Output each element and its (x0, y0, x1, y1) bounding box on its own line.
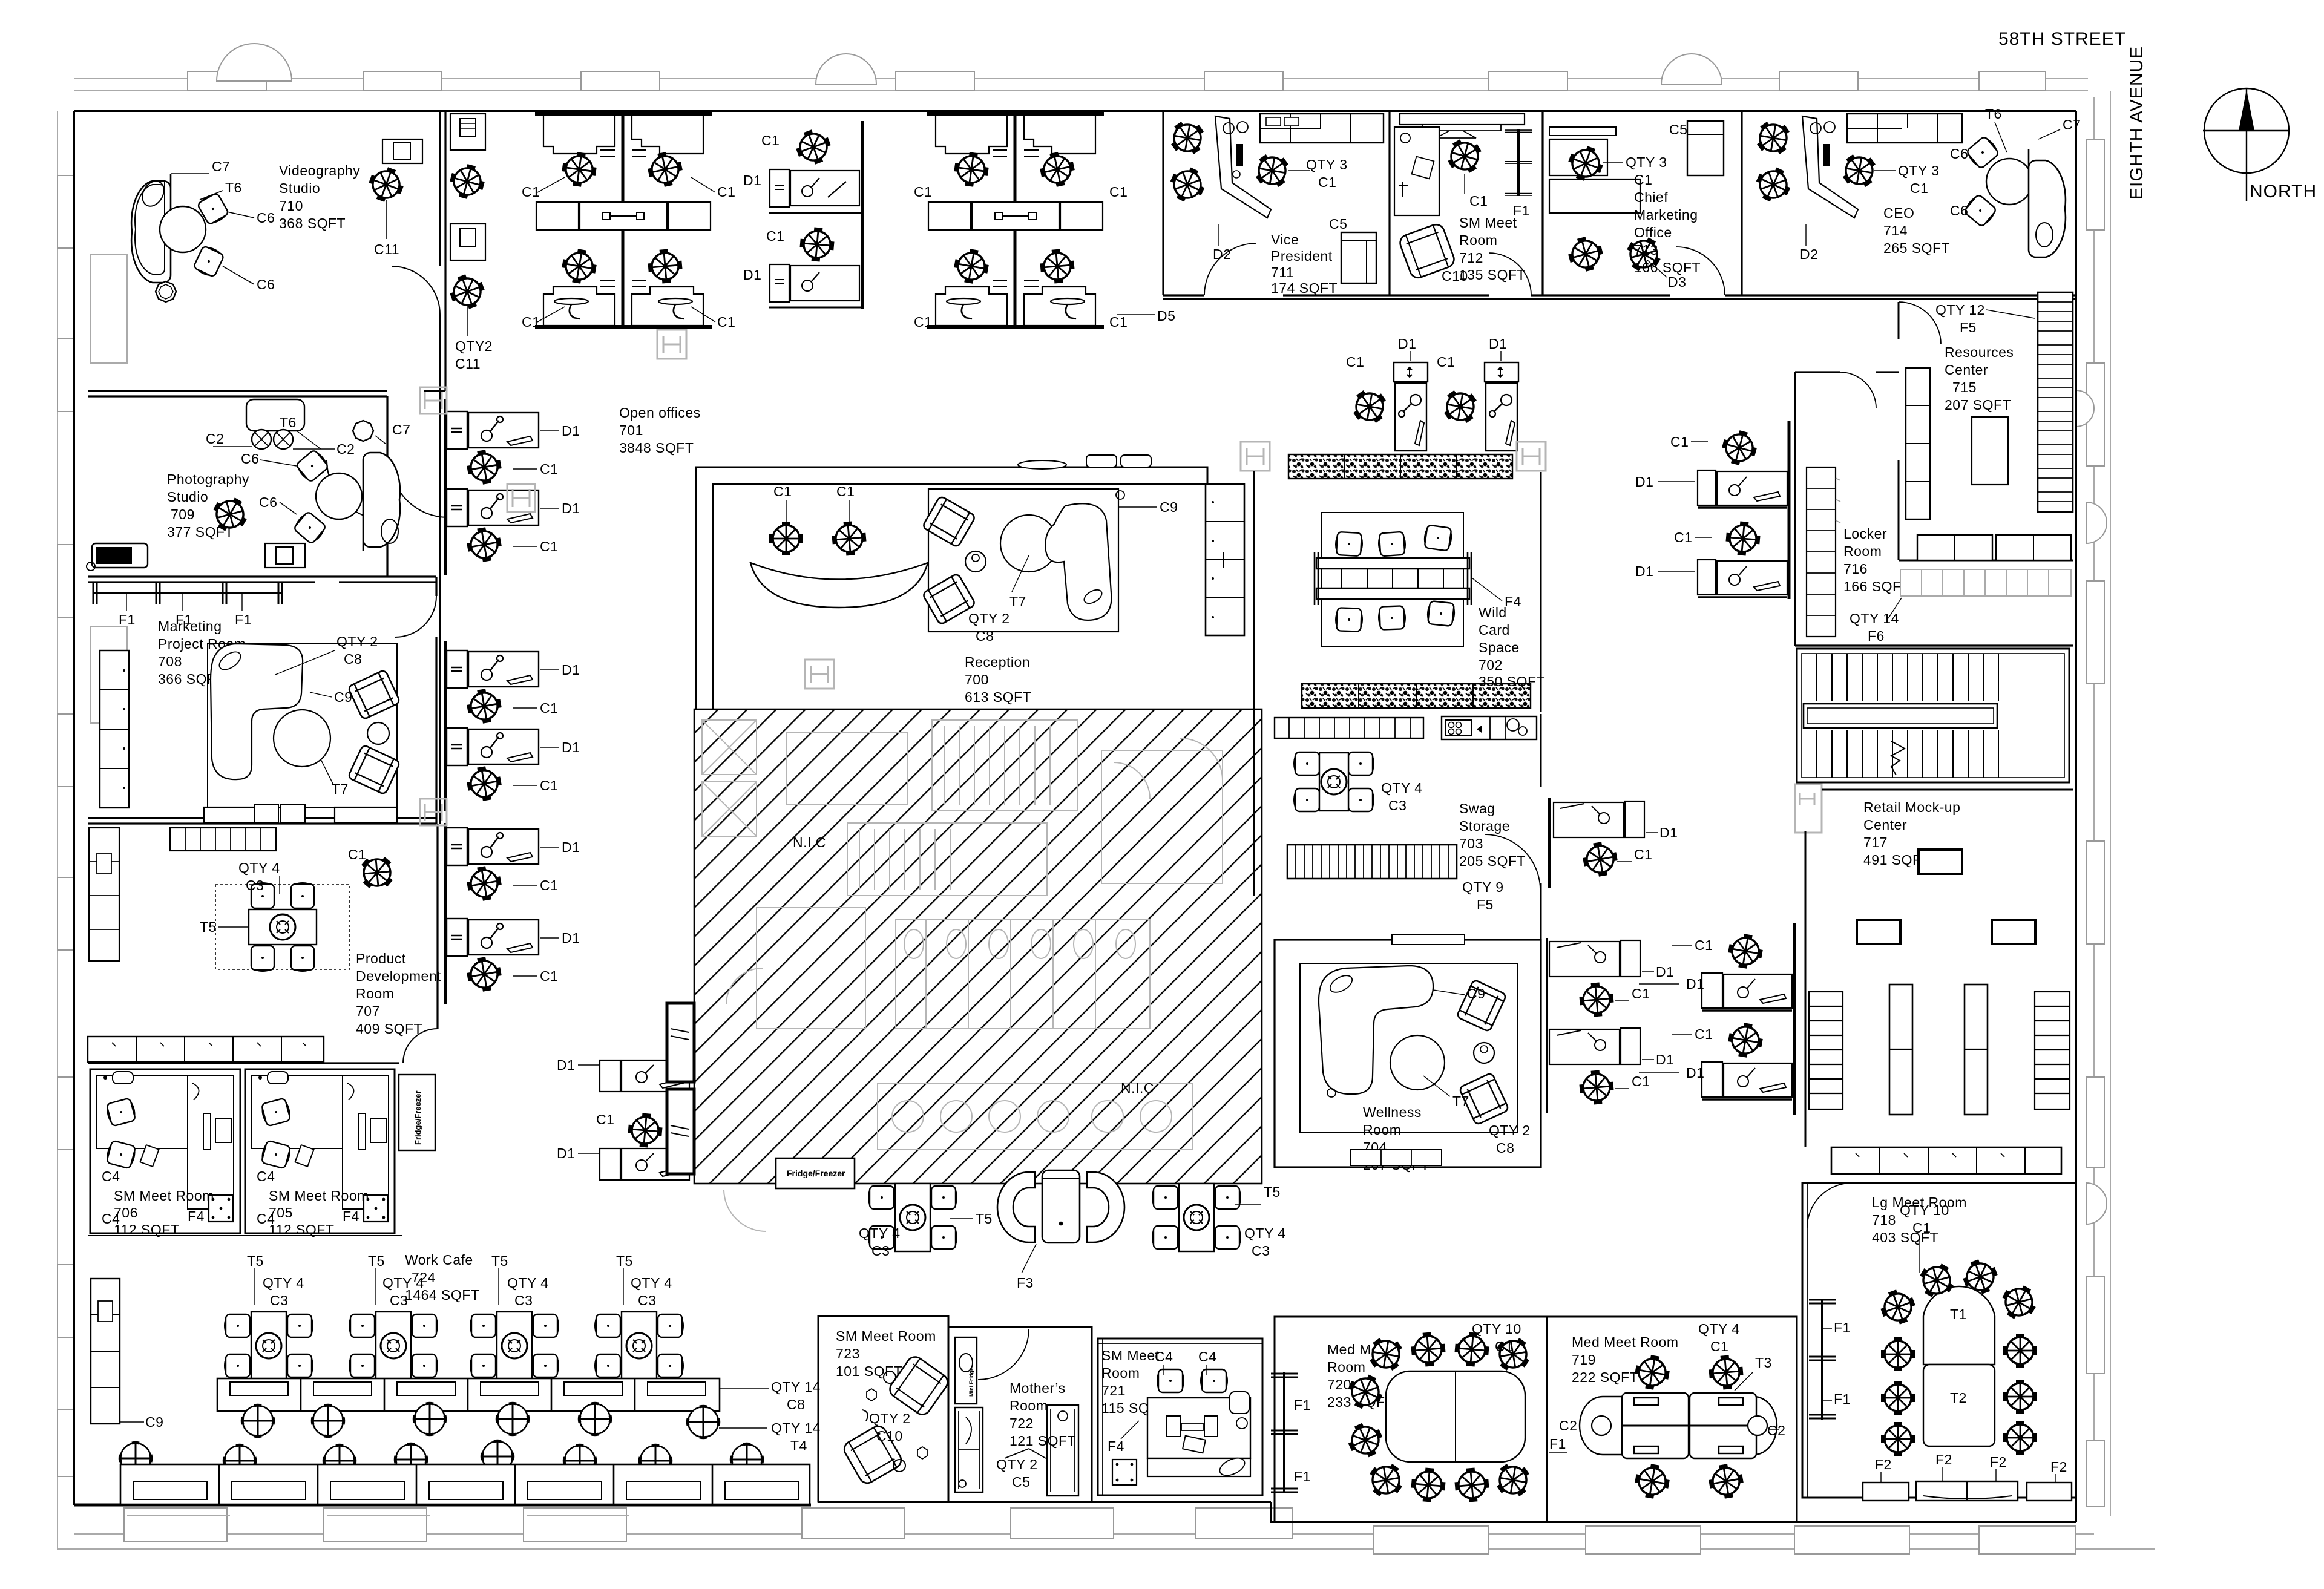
svg-text:706: 706 (114, 1205, 138, 1220)
sofa C7 mirrored + table T6 (363, 453, 400, 551)
middle pair of hoteling desks between clusters (743, 121, 864, 309)
svg-text:135 SQFT: 135 SQFT (1459, 267, 1526, 283)
svg-text:Resources: Resources (1945, 344, 2014, 360)
svg-text:Center: Center (1863, 817, 1907, 833)
svg-text:F2: F2 (1990, 1454, 2007, 1470)
svg-text:Room: Room (1459, 232, 1497, 248)
display fixtures (1919, 850, 1962, 874)
F2 benches bottom (1863, 1483, 1909, 1501)
svg-text:C6: C6 (1950, 146, 1968, 162)
C9 sofa blob (1045, 503, 1111, 620)
svg-text:D1: D1 (1635, 474, 1653, 490)
H columns (420, 330, 1822, 833)
svg-text:Videography: Videography (279, 163, 360, 179)
svg-text:C3: C3 (270, 1292, 288, 1308)
svg-text:707: 707 (356, 1003, 380, 1019)
table (1972, 417, 2008, 485)
main exterior walls (black) (74, 111, 2076, 1522)
svg-text:QTY 4: QTY 4 (1244, 1225, 1286, 1241)
svg-text:F2: F2 (1935, 1452, 1952, 1467)
svg-text:Room: Room (1101, 1365, 1140, 1381)
rug + T5 table w 4 chairs (215, 885, 350, 969)
svg-text:SM Meet: SM Meet (1459, 215, 1517, 231)
T7 pouf (1390, 1035, 1445, 1090)
svg-text:Marketing: Marketing (1634, 207, 1698, 223)
svg-text:QTY 2: QTY 2 (1489, 1122, 1531, 1138)
svg-text:C9: C9 (145, 1414, 163, 1430)
svg-text:SM Meet Room: SM Meet Room (836, 1328, 936, 1344)
two D1 units near core bottom-left (557, 1057, 689, 1180)
svg-text:T1: T1 (1950, 1306, 1967, 1322)
svg-text:D1: D1 (743, 267, 761, 283)
svg-text:Open offices: Open offices (619, 405, 701, 421)
top cabinets (170, 828, 276, 851)
svg-text:C6: C6 (259, 494, 277, 510)
svg-text:Work Cafe: Work Cafe (405, 1252, 473, 1268)
svg-text:C1: C1 (1670, 434, 1689, 450)
sofa C7 (131, 174, 171, 283)
svg-text:C3: C3 (390, 1292, 408, 1308)
SM meet room 721 (1098, 1338, 1262, 1495)
T3 table: two benches back to back (1580, 1393, 1777, 1458)
svg-text:D1: D1 (562, 423, 580, 439)
C10 lounge chair (1398, 222, 1457, 280)
svg-text:T4: T4 (790, 1438, 807, 1453)
svg-text:C1: C1 (717, 184, 735, 200)
D1 units right of core lower (y1313-1840) (1547, 798, 1794, 1115)
svg-text:166 SQFT: 166 SQFT (1634, 260, 1701, 275)
svg-text:Locker: Locker (1843, 526, 1887, 542)
door arcs left stack (327, 266, 448, 1063)
svg-text:QTY 4: QTY 4 (631, 1275, 672, 1291)
wild card space table F4 (1315, 513, 1545, 690)
svg-text:QTY 10: QTY 10 (1900, 1202, 1949, 1218)
interiors (desk + daybed + chairs) x2 (97, 1072, 234, 1227)
svg-text:C5: C5 (1012, 1474, 1030, 1490)
svg-text:409 SQFT: 409 SQFT (356, 1021, 422, 1037)
upper bench row (217, 1378, 720, 1411)
VP office 711 (1164, 114, 1384, 296)
svg-text:Fridge/Freezer: Fridge/Freezer (413, 1090, 422, 1145)
videography studio 710 (131, 139, 422, 302)
retail mock-up center 717 (1805, 790, 2073, 1174)
svg-text:QTY 4: QTY 4 (859, 1225, 901, 1241)
svg-text:QTY2: QTY2 (455, 338, 493, 354)
svg-text:Fridge/Freezer: Fridge/Freezer (787, 1168, 845, 1178)
product development room 707 (88, 828, 441, 1062)
svg-text:D2: D2 (1800, 246, 1818, 262)
T4 tables row2 (120, 1443, 151, 1473)
svg-text:711: 711 (1271, 264, 1294, 280)
svg-text:D1: D1 (557, 1145, 575, 1161)
svg-text:QTY 2: QTY 2 (968, 611, 1010, 626)
svg-text:F5: F5 (1960, 319, 1977, 335)
svg-text:58TH STREET: 58TH STREET (1998, 29, 2126, 49)
svg-text:QTY 2: QTY 2 (336, 634, 378, 649)
svg-text:D1: D1 (1489, 336, 1507, 352)
bench row above lg meet room (outside) (1831, 1149, 2061, 1174)
svg-text:F4: F4 (1108, 1438, 1124, 1454)
svg-text:C5: C5 (1669, 122, 1687, 137)
svg-text:QTY 2: QTY 2 (996, 1456, 1038, 1472)
svg-text:702: 702 (1479, 657, 1503, 673)
svg-text:205 SQFT: 205 SQFT (1459, 853, 1526, 869)
C9 sofa blob (1319, 966, 1433, 1094)
med meet room 720 (1275, 1317, 1547, 1522)
two C8 chairs + side table (348, 669, 401, 719)
svg-text:C1: C1 (1437, 354, 1455, 370)
reception counter (696, 455, 1207, 729)
svg-text:C3: C3 (871, 1243, 890, 1259)
svg-text:Reception: Reception (965, 654, 1030, 670)
two T5 tables + F3 lounge below core (859, 1170, 1286, 1291)
sofa blob C9 (211, 644, 303, 779)
svg-text:Center: Center (1945, 362, 1988, 378)
svg-text:712: 712 (1459, 250, 1483, 266)
svg-text:C3: C3 (1388, 798, 1407, 813)
bottom wall window sills (124, 1508, 2076, 1554)
top executive office row walls (1163, 111, 2076, 299)
svg-text:C2: C2 (206, 431, 224, 447)
svg-text:Mother’s: Mother’s (1009, 1380, 1066, 1396)
svg-text:C1: C1 (540, 461, 558, 477)
svg-text:613 SQFT: 613 SQFT (965, 689, 1031, 705)
svg-text:F6: F6 (1868, 628, 1885, 644)
svg-text:N.I.C: N.I.C (1121, 1080, 1154, 1096)
svg-text:C7: C7 (392, 422, 410, 437)
svg-text:C8: C8 (976, 628, 994, 644)
svg-text:T6: T6 (1985, 106, 2002, 122)
svg-text:3848 SQFT: 3848 SQFT (619, 440, 694, 456)
svg-text:QTY 14: QTY 14 (771, 1420, 821, 1436)
svg-text:T6: T6 (280, 414, 297, 430)
svg-text:718: 718 (1872, 1212, 1896, 1228)
svg-text:QTY 12: QTY 12 (1935, 302, 1985, 318)
F5 shelf strip (1287, 845, 1457, 879)
svg-text:C8: C8 (1496, 1140, 1514, 1156)
med meet room 719 (1547, 1317, 1797, 1522)
svg-text:Room: Room (1363, 1122, 1401, 1138)
svg-text:D1: D1 (1656, 964, 1674, 980)
wellness room 704 (1275, 935, 1541, 1173)
gray shelf row under resources (1900, 569, 2071, 596)
svg-text:207 SQFT: 207 SQFT (1945, 397, 2011, 413)
svg-text:C4: C4 (1198, 1349, 1216, 1365)
svg-text:Wellness: Wellness (1363, 1104, 1422, 1120)
svg-text:Studio: Studio (279, 180, 320, 196)
svg-text:Space: Space (1479, 640, 1520, 655)
photography studio 709 (87, 399, 410, 571)
svg-text:C6: C6 (1950, 203, 1968, 218)
svg-text:Wild: Wild (1479, 604, 1507, 620)
left wall window recesses (57, 175, 127, 1476)
svg-text:C2: C2 (1559, 1418, 1577, 1433)
svg-text:C1: C1 (836, 483, 855, 499)
svg-text:701: 701 (619, 422, 643, 438)
svg-text:F1: F1 (119, 612, 136, 627)
svg-text:D1: D1 (1686, 976, 1704, 992)
table T6 (160, 206, 206, 252)
svg-text:QTY 2: QTY 2 (869, 1410, 911, 1426)
svg-text:C1: C1 (348, 847, 366, 862)
svg-text:717: 717 (1863, 834, 1888, 850)
T7 round table (274, 710, 330, 767)
svg-text:T2: T2 (1950, 1390, 1967, 1406)
svg-text:D3: D3 (1668, 274, 1686, 290)
svg-text:T5: T5 (247, 1253, 264, 1269)
svg-text:C7: C7 (2063, 117, 2081, 133)
svg-text:CEO: CEO (1883, 205, 1914, 221)
svg-text:174 SQFT: 174 SQFT (1271, 280, 1338, 296)
svg-text:C4: C4 (102, 1168, 120, 1184)
svg-text:Development: Development (356, 968, 441, 984)
svg-text:Storage: Storage (1459, 818, 1510, 834)
svg-text:Mini Fridge: Mini Fridge (968, 1368, 974, 1397)
svg-text:222 SQFT: 222 SQFT (1572, 1369, 1638, 1385)
chair star center (207, 491, 253, 537)
svg-text:Product: Product (356, 951, 406, 966)
svg-text:T7: T7 (1009, 594, 1026, 609)
svg-text:F3: F3 (1017, 1275, 1034, 1291)
svg-text:C9: C9 (1160, 499, 1178, 515)
svg-text:F1: F1 (1294, 1469, 1311, 1484)
svg-text:Vice: Vice (1271, 232, 1299, 247)
right column units attached to wall 2965 (1639, 932, 1792, 1011)
octagon stool (156, 281, 176, 302)
plant strips wild card (1288, 454, 1512, 479)
svg-text:D2: D2 (1213, 246, 1231, 262)
svg-text:QTY 4: QTY 4 (1381, 780, 1423, 796)
svg-text:722: 722 (1009, 1415, 1034, 1431)
tall cabinet column (100, 650, 129, 808)
coat rack between 721 and 720 (1271, 1372, 1298, 1493)
fridge/freezer vertical (399, 1075, 435, 1150)
svg-text:C11: C11 (374, 241, 399, 257)
svg-text:C6: C6 (241, 451, 259, 467)
right wall (2075, 111, 2077, 1522)
svg-text:112 SQFT: 112 SQFT (114, 1222, 179, 1237)
locker room 716 (1795, 372, 2073, 646)
svg-text:C1: C1 (1632, 986, 1650, 1001)
svg-text:C2: C2 (336, 441, 355, 457)
svg-text:QTY 3: QTY 3 (1898, 163, 1940, 179)
kitchen counters (1275, 716, 1537, 739)
svg-text:SM Meet Room: SM Meet Room (114, 1188, 214, 1204)
rug (208, 644, 397, 807)
light gray interior details (702, 720, 1223, 1150)
walls of left room stack (88, 111, 445, 1063)
C8 chairs right (1456, 980, 1506, 1032)
10 chairs around (1914, 1257, 1960, 1303)
svg-text:Marketing: Marketing (158, 618, 222, 634)
svg-text:713: 713 (1634, 242, 1658, 258)
crescent reception desk + 2 chairs (750, 563, 928, 608)
svg-text:265 SQFT: 265 SQFT (1883, 240, 1950, 256)
svg-text:QTY 4: QTY 4 (382, 1275, 424, 1291)
black service rooms at left of core (667, 1003, 694, 1174)
svg-text:D5: D5 (1157, 308, 1175, 324)
left column unit 2 (1549, 940, 1674, 1018)
svg-text:709: 709 (171, 506, 195, 522)
svg-text:715: 715 (1952, 379, 1977, 395)
svg-text:QTY 10: QTY 10 (1472, 1321, 1521, 1337)
chairs C6 (197, 191, 230, 226)
svg-text:T7: T7 (332, 781, 349, 797)
svg-text:EIGHTH AVENUE: EIGHTH AVENUE (2127, 46, 2147, 200)
svg-text:719: 719 (1572, 1352, 1596, 1368)
svg-text:N.I.C: N.I.C (793, 834, 826, 850)
svg-text:720: 720 (1327, 1377, 1351, 1392)
svg-text:700: 700 (965, 672, 989, 687)
rug (1300, 963, 1518, 1133)
svg-text:C1: C1 (1710, 1338, 1728, 1354)
D1 units against wall x2956, y695-990 (1635, 421, 1789, 599)
svg-text:Chief: Chief (1634, 189, 1668, 205)
svg-text:F1: F1 (1294, 1397, 1311, 1413)
svg-text:705: 705 (269, 1205, 293, 1220)
T7 round (1000, 515, 1057, 572)
svg-text:QTY 14: QTY 14 (771, 1379, 821, 1395)
svg-text:C6: C6 (257, 277, 275, 292)
svg-text:C1: C1 (1634, 847, 1652, 862)
svg-text:T3: T3 (1755, 1355, 1772, 1371)
svg-text:721: 721 (1101, 1383, 1126, 1398)
svg-text:C9: C9 (334, 689, 352, 705)
svg-text:F1: F1 (1549, 1436, 1566, 1452)
small table with two stools C2 (246, 399, 304, 431)
lounge rug (928, 489, 1118, 632)
open offices quad clusters (535, 114, 712, 327)
svg-text:C3: C3 (638, 1292, 656, 1308)
bottom bench row (1831, 1147, 2061, 1174)
svg-text:T5: T5 (491, 1253, 508, 1269)
svg-text:F1: F1 (1834, 1320, 1851, 1335)
svg-text:C1: C1 (717, 314, 735, 330)
CEO office 714 (1750, 106, 2081, 262)
left cabinets column (91, 1279, 120, 1424)
left column unit 1 (1554, 802, 1624, 837)
svg-text:F4: F4 (1505, 594, 1521, 609)
svg-text:C1: C1 (766, 228, 784, 244)
svg-text:C1: C1 (522, 184, 540, 200)
svg-text:D1: D1 (1659, 825, 1678, 840)
svg-text:Room: Room (1327, 1359, 1365, 1375)
oval table with chairs (1386, 1371, 1525, 1462)
svg-text:QTY 4: QTY 4 (1698, 1321, 1740, 1337)
svg-text:Room: Room (1009, 1398, 1048, 1414)
bottom cabinets row (88, 1037, 324, 1062)
T1 arch table + T2 rect table (1923, 1286, 1995, 1365)
svg-text:C1: C1 (914, 184, 932, 200)
svg-text:F2: F2 (2050, 1459, 2067, 1475)
SM meet room 712 (1394, 114, 1532, 284)
svg-text:112 SQFT: 112 SQFT (269, 1222, 334, 1237)
bench at bottom wall (1351, 1150, 1442, 1165)
svg-text:C1: C1 (1912, 1220, 1931, 1236)
svg-text:C3: C3 (514, 1292, 533, 1308)
svg-text:QTY 4: QTY 4 (238, 860, 280, 876)
svg-text:T6: T6 (225, 180, 242, 195)
cabinet column between reception and wild card (1206, 484, 1244, 635)
svg-text:C1: C1 (773, 483, 792, 499)
svg-text:President: President (1271, 248, 1333, 264)
svg-text:T5: T5 (368, 1253, 385, 1269)
svg-text:D1: D1 (1398, 336, 1416, 352)
svg-text:C9: C9 (1467, 986, 1485, 1001)
T6 + C6 chairs + C7 sofa right (1986, 159, 2032, 205)
svg-text:C1: C1 (1469, 193, 1488, 209)
N.I.C core hatched block (694, 709, 1262, 1184)
svg-text:Room: Room (1843, 543, 1882, 559)
svg-text:QTY 9: QTY 9 (1462, 879, 1504, 895)
svg-text:C1: C1 (914, 314, 932, 330)
svg-text:C1: C1 (596, 1112, 614, 1127)
svg-text:121 SQFT: 121 SQFT (1009, 1433, 1076, 1449)
wall cabinets left (1906, 368, 1930, 519)
svg-text:716: 716 (1843, 561, 1868, 577)
right wall window band (2076, 139, 2107, 1507)
svg-text:C1: C1 (1318, 174, 1336, 190)
walls around wild card / kitchen (1254, 471, 1541, 940)
svg-text:C11: C11 (455, 356, 481, 372)
svg-text:T5: T5 (1264, 1184, 1281, 1200)
svg-text:C3: C3 (1252, 1243, 1270, 1259)
F5 shelving right wall (2038, 292, 2073, 512)
vertical D1 pairs above wild card (1346, 362, 1428, 451)
svg-text:T5: T5 (200, 919, 217, 935)
svg-text:SM Meet Room: SM Meet Room (269, 1188, 369, 1204)
corridor printers + chairs (right of corridor wall) (445, 114, 493, 372)
svg-text:C1: C1 (1109, 314, 1128, 330)
marketing project room 708 (93, 582, 400, 823)
svg-text:C1: C1 (1695, 937, 1713, 953)
svg-text:C2: C2 (1767, 1423, 1785, 1438)
svg-text:C1: C1 (522, 314, 540, 330)
bottom wall left portion (74, 1504, 811, 1507)
side shelves (1809, 992, 2070, 1109)
svg-text:C1: C1 (1634, 172, 1652, 188)
octagon stool (353, 421, 373, 441)
svg-text:710: 710 (279, 198, 303, 214)
printer table + chair near corridor (382, 139, 422, 163)
svg-text:T7: T7 (1452, 1093, 1469, 1109)
svg-text:F4: F4 (188, 1208, 205, 1224)
svg-text:Med Meet Room: Med Meet Room (1572, 1334, 1679, 1350)
two C8 chairs (922, 496, 976, 548)
svg-text:D1: D1 (1635, 563, 1653, 579)
D1 units stacked left of core (facing corridor) (447, 411, 580, 487)
svg-text:SM Meet: SM Meet (1101, 1348, 1160, 1363)
cabinets at rug bottom (204, 807, 269, 823)
stairwell (1797, 649, 2069, 782)
F1 racks (1809, 1299, 1836, 1420)
svg-text:QTY 4: QTY 4 (263, 1275, 304, 1291)
svg-text:QTY 4: QTY 4 (507, 1275, 549, 1291)
F3 double lounge (997, 1170, 1124, 1243)
four T5 tables (225, 1312, 313, 1380)
work cafe 724 (91, 1252, 821, 1504)
svg-text:C1: C1 (1495, 1338, 1513, 1354)
svg-text:Office: Office (1634, 224, 1672, 240)
svg-text:368 SQFT: 368 SQFT (279, 215, 346, 231)
svg-text:F5: F5 (1477, 897, 1494, 912)
swag storage 703 (1287, 752, 1540, 912)
svg-text:F1: F1 (235, 612, 252, 627)
svg-text:703: 703 (1459, 836, 1483, 851)
svg-text:Room: Room (356, 986, 394, 1001)
svg-text:QTY 3: QTY 3 (1626, 154, 1667, 170)
svg-text:C1: C1 (761, 133, 780, 148)
